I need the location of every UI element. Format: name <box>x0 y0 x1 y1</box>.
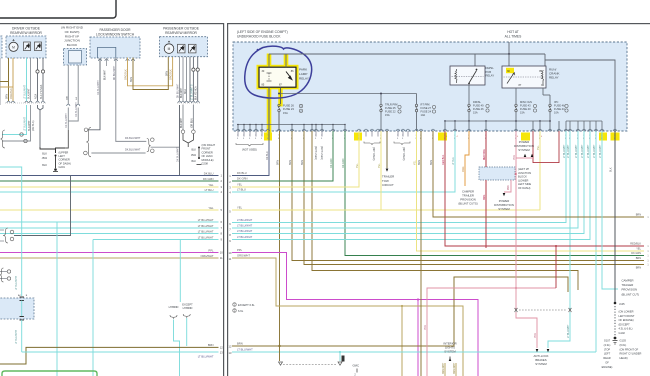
svg-text:J105: J105 <box>619 302 625 306</box>
passenger mirror merged wires to HVAC ground <box>182 105 184 131</box>
right brace and callouts <box>147 139 151 152</box>
svg-text:OF: OF <box>605 361 609 365</box>
svg-text:LT BLU/WHT: LT BLU/WHT <box>564 144 566 158</box>
left edge brace <box>1 130 6 148</box>
left panel border <box>0 23 224 24</box>
ground G102 <box>614 337 617 340</box>
trlr prk fuse drop <box>380 94 382 105</box>
wire BLK ring-terminal 2 <box>42 58 44 70</box>
svg-text:(NOT USED): (NOT USED) <box>314 146 317 160</box>
passenger door lock/window switch box <box>90 37 140 58</box>
svg-text:(LEFT SIDE OF ENGINE COMPT): (LEFT SIDE OF ENGINE COMPT) <box>237 30 288 34</box>
svg-text:LT BLU/WHT: LT BLU/WHT <box>237 348 253 352</box>
left panel wire 9 LT BLU/WHT <box>93 239 219 241</box>
wire YEL to wire 3 <box>232 131 359 187</box>
svg-text:PNK: PNK <box>513 155 516 160</box>
wire LT BLU/WHT branch at x57 to bottom <box>56 223 58 376</box>
svg-text:MISC IGN: MISC IGN <box>520 100 532 104</box>
svg-text:LT BLU: LT BLU <box>452 157 455 165</box>
wire 10 PPL <box>232 253 478 376</box>
svg-text:PNK: PNK <box>508 185 510 190</box>
svg-text:FUSE 23: FUSE 23 <box>283 107 294 111</box>
engine option note <box>233 303 236 306</box>
driver LT BLU/WHT exits left edge <box>2 105 27 135</box>
svg-text:YEL: YEL <box>237 183 243 187</box>
inline connector on PNK at 310 <box>515 308 518 312</box>
svg-text:OF ENGINE): OF ENGINE) <box>619 318 634 322</box>
svg-text:LT BLU/WHT: LT BLU/WHT <box>24 84 27 99</box>
svg-text:HOT AT: HOT AT <box>507 30 519 34</box>
svg-text:IPC: IPC <box>554 100 558 104</box>
not used stub group 2 <box>364 142 380 145</box>
yellow highlight feed stub 30 <box>267 54 272 66</box>
svg-text:DK BLU/WHT: DK BLU/WHT <box>75 102 78 117</box>
svg-text:BRN: BRN <box>430 160 433 165</box>
wire 5 YEL <box>232 209 540 211</box>
splice J105 <box>614 302 617 305</box>
svg-text:LT BLU/WHT: LT BLU/WHT <box>568 324 570 338</box>
left panel wire 13 LT BLU/WHT <box>22 351 219 353</box>
svg-text:OF HVAC: OF HVAC <box>202 154 213 158</box>
svg-text:JUNCTION: JUNCTION <box>64 39 80 43</box>
wire LT BLU/WHT branch at x93 to bottom <box>92 240 94 376</box>
park lamp relay K1 <box>259 67 296 87</box>
svg-text:15A: 15A <box>283 111 288 115</box>
svg-text:LT BLU/WHT: LT BLU/WHT <box>237 229 253 233</box>
svg-text:LT BLU/WHT: LT BLU/WHT <box>198 218 214 222</box>
svg-text:DM/SL: DM/SL <box>486 66 495 70</box>
svg-text:YEL: YEL <box>537 145 540 150</box>
wire YEL to right edge <box>417 131 645 251</box>
svg-text:GMC: GMC <box>353 364 360 368</box>
left I/P junction block <box>479 167 515 180</box>
svg-text:(TOP: (TOP <box>604 347 610 351</box>
svg-text:BLOCK: BLOCK <box>67 43 78 47</box>
svg-text:BRN: BRN <box>289 160 292 165</box>
svg-text:PPL: PPL <box>208 248 214 252</box>
svg-text:12: 12 <box>220 346 223 350</box>
trailer tow arrow stub <box>386 131 388 168</box>
svg-text:(NOT USED): (NOT USED) <box>320 146 323 160</box>
wire RED/ORG below junction block <box>485 180 487 248</box>
svg-text:BRN: BRN <box>301 160 304 165</box>
svg-text:EXCEPT: EXCEPT <box>182 303 193 307</box>
wire BLK to G201 <box>55 157 57 169</box>
svg-text:RELAY: RELAY <box>486 74 495 78</box>
wire RED/BLK <box>445 131 644 246</box>
svg-text:HYBRID: HYBRID <box>169 305 179 309</box>
wire ORG/WHT branch down <box>401 306 403 376</box>
svg-text:CORNER: CORNER <box>202 150 213 154</box>
svg-text:PASSENGER DOOR: PASSENGER DOOR <box>99 28 131 32</box>
wire 12 BRN right panel <box>232 277 568 346</box>
svg-text:10: 10 <box>220 251 223 255</box>
MISC IGN fuse drop <box>515 88 517 104</box>
wire RED/BLK U-link under fuse box <box>533 131 559 163</box>
svg-text:PARK: PARK <box>299 68 308 72</box>
svg-text:LT BLU/WHT: LT BLU/WHT <box>15 329 18 344</box>
left tall brace <box>86 127 91 156</box>
svg-text:BRN: BRN <box>165 71 168 76</box>
svg-text:11: 11 <box>220 256 223 260</box>
svg-text:BLOCK: BLOCK <box>518 175 527 179</box>
svg-text:DK BLU/WHT: DK BLU/WHT <box>97 80 100 95</box>
svg-text:LEFT SIDE: LEFT SIDE <box>518 182 531 186</box>
wire ORG/BLK U-link switch to passenger mirror <box>128 57 173 86</box>
svg-text:SYSTEM: SYSTEM <box>498 207 510 211</box>
svg-text:YEL: YEL <box>378 163 381 168</box>
svg-text:RIGHT CYLINDER: RIGHT CYLINDER <box>620 352 642 356</box>
junction block right edge dot <box>515 173 517 175</box>
svg-text:(BLUNT CUT): (BLUNT CUT) <box>622 292 640 296</box>
svg-text:RELAY: RELAY <box>549 76 559 80</box>
svg-text:YEL: YEL <box>208 206 214 210</box>
right panel border <box>227 23 650 24</box>
driver BLK wires merge <box>38 105 41 110</box>
svg-text:DK GRN: DK GRN <box>342 158 345 168</box>
svg-text:FUSE 40: FUSE 40 <box>520 107 531 111</box>
wire BLK main ground <box>614 131 616 304</box>
svg-text:10A: 10A <box>554 111 559 115</box>
relay switch arm <box>286 72 292 80</box>
yellow highlight wire 87 output <box>278 87 282 107</box>
wire DK GRN long to right edge <box>345 131 644 256</box>
ground triangle right <box>338 362 342 365</box>
svg-text:DK GRN: DK GRN <box>237 177 248 181</box>
splice J502 <box>55 155 57 157</box>
svg-text:(ON RIGHT: (ON RIGHT <box>202 143 216 147</box>
left panel wire 10 PPL <box>0 252 219 254</box>
svg-text:DM/SL: DM/SL <box>473 100 481 104</box>
svg-text:PPL: PPL <box>237 248 243 252</box>
left panel wire 12 BRN <box>0 347 219 364</box>
svg-text:BLK: BLK <box>42 164 47 167</box>
driver-door switch box sliver at cropped left edge <box>0 36 2 58</box>
right I/P junction block box <box>64 49 87 66</box>
svg-text:LT BLU/WHT: LT BLU/WHT <box>582 144 584 158</box>
svg-text:DK.BLU/WHT: DK.BLU/WHT <box>125 137 141 140</box>
svg-text:BLK/WHT: BLK/WHT <box>28 120 31 131</box>
svg-text:DK BLU/WHT: DK BLU/WHT <box>177 147 180 162</box>
svg-text:ORG: ORG <box>462 166 465 172</box>
splice J502 right <box>198 147 200 149</box>
svg-text:REARVIEW MIRROR: REARVIEW MIRROR <box>10 31 42 35</box>
svg-text:(OR BLK): (OR BLK) <box>191 118 193 128</box>
svg-text:JUNCTION: JUNCTION <box>518 171 531 175</box>
not used stub group 3 <box>394 142 410 145</box>
svg-text:15A: 15A <box>520 111 525 115</box>
wire BRN 3 <box>304 131 644 265</box>
inline connector hatch on ground branch <box>342 356 345 362</box>
svg-text:RT PRK: RT PRK <box>421 103 431 107</box>
svg-text:FUSE 43: FUSE 43 <box>554 107 565 111</box>
left panel wire 4 LT BLU <box>0 191 219 193</box>
svg-text:J502: J502 <box>42 157 48 160</box>
svg-text:G201: G201 <box>59 165 66 169</box>
svg-text:FRONT: FRONT <box>202 147 211 151</box>
svg-text:LT BLU: LT BLU <box>205 188 214 192</box>
junction block wire DK BLU/WHT b <box>77 65 79 104</box>
svg-text:BRN: BRN <box>636 267 641 270</box>
wire LT BLU/WHT from connector to wire 13 <box>21 320 23 352</box>
pnk branch to power distribution below <box>504 180 511 192</box>
svg-text:BLK/WHT: BLK/WHT <box>181 87 183 98</box>
svg-text:PROVISION: PROVISION <box>622 288 638 292</box>
svg-text:(NOT USED): (NOT USED) <box>242 148 257 152</box>
svg-text:BLK/WHT: BLK/WHT <box>105 69 107 80</box>
svg-text:BRN: BRN <box>208 343 214 347</box>
wire BRN 2 <box>292 131 644 261</box>
driver BLK/WHT (OR BLK) exits left edge <box>2 105 31 141</box>
svg-text:OF DASH): OF DASH) <box>65 30 80 34</box>
passenger mirror heater element 1 <box>178 44 186 53</box>
wire BRN from fuse 23 down to wire 12 <box>279 131 281 346</box>
ground convergence to G201 <box>40 147 56 153</box>
wire PNK main <box>515 131 517 310</box>
wire fuse 23 output <box>278 112 280 131</box>
svg-text:YEL: YEL <box>636 247 641 250</box>
svg-text:15A: 15A <box>385 113 390 117</box>
svg-text:NCA: NCA <box>184 89 187 94</box>
internal bus left side <box>237 124 345 126</box>
not used stubs <box>237 131 239 137</box>
svg-text:ORG/BLK: ORG/BLK <box>170 69 173 80</box>
svg-text:(NOT USED): (NOT USED) <box>402 147 404 161</box>
left panel wire 8 LT BLU/WHT <box>0 233 219 235</box>
svg-text:LEFT: LEFT <box>604 352 611 356</box>
svg-text:SYSTEM: SYSTEM <box>518 148 530 152</box>
internal bus from relay 87 to park fuses <box>279 93 417 95</box>
bus drops to connectors <box>444 121 446 131</box>
fuse block bottom connector bumps <box>236 129 239 131</box>
svg-text:ORG/BLK: ORG/BLK <box>10 88 13 99</box>
svg-text:FUSE 24: FUSE 24 <box>421 110 432 114</box>
svg-text:TRLR PRK: TRLR PRK <box>385 103 398 107</box>
left panel wire 1 DK BLU <box>0 175 219 177</box>
wire ORG/BLK from driver mirror <box>12 58 14 101</box>
wire BLK/WHT from driver mirror <box>30 58 32 101</box>
svg-text:M: M <box>168 47 171 51</box>
ground triangle left <box>279 362 283 365</box>
wire RED/ORG through junction block <box>485 131 487 167</box>
ground G201 <box>54 168 57 171</box>
svg-text:BRN: BRN <box>418 160 421 165</box>
wire LT BLU/WHT from left edge to inline connector <box>0 167 22 296</box>
svg-text:BRN: BRN <box>636 213 641 216</box>
svg-text:LAMP: LAMP <box>299 72 307 76</box>
wire 13 ground branch <box>339 352 341 361</box>
svg-text:DK GRN: DK GRN <box>203 177 214 181</box>
wire BRN from driver mirror <box>8 58 10 101</box>
left panel wire 6 LT BLU/WHT <box>0 221 219 223</box>
svg-text:BRN: BRN <box>130 77 133 82</box>
svg-text:(LEFT I/P: (LEFT I/P <box>518 167 529 171</box>
svg-text:HYBRID: HYBRID <box>183 306 193 310</box>
svg-text:BLK YD NCA: BLK YD NCA <box>195 86 198 100</box>
svg-text:DK GRN: DK GRN <box>330 158 333 168</box>
svg-text:LT BLU/WHT: LT BLU/WHT <box>237 235 253 239</box>
svg-text:DK.BLU/WHT: DK.BLU/WHT <box>125 149 141 152</box>
wire DK BLU/WHT long vertical to bus 1 <box>179 105 181 176</box>
svg-text:BRN: BRN <box>237 342 243 346</box>
svg-text:BLK: BLK <box>42 153 47 156</box>
top-left white label box <box>0 0 116 18</box>
svg-text:YEL: YEL <box>237 206 243 210</box>
svg-text:FUSE 46: FUSE 46 <box>554 104 565 108</box>
driver mirror heater element 1 <box>24 42 31 51</box>
svg-text:ENGINE): ENGINE) <box>602 365 613 369</box>
svg-text:6.6L: 6.6L <box>238 309 244 313</box>
svg-text:DK GRN: DK GRN <box>631 252 641 255</box>
svg-text:LT BLU/WHT: LT BLU/WHT <box>198 355 214 359</box>
passenger mirror gray wires <box>179 57 181 101</box>
svg-text:BLK/WHT: BLK/WHT <box>181 117 183 128</box>
svg-text:LT BLU/WHT: LT BLU/WHT <box>198 229 214 233</box>
svg-text:(6.6L): (6.6L) <box>620 343 627 347</box>
driver BRN exits left edge <box>0 58 9 82</box>
svg-text:OF DASH): OF DASH) <box>59 161 72 165</box>
svg-text:ORG: ORG <box>484 195 486 200</box>
svg-text:DK BLU/WHT: DK BLU/WHT <box>65 113 68 128</box>
svg-text:FUSE 46: FUSE 46 <box>473 107 484 111</box>
passenger switch wire DK BLU/WHT drop to callout <box>88 58 100 130</box>
svg-text:G103: G103 <box>620 339 627 343</box>
link wire to mirror drop <box>151 146 180 148</box>
IPC fuse drop <box>542 88 544 95</box>
svg-text:M: M <box>12 45 15 49</box>
svg-text:BRN: BRN <box>277 160 280 165</box>
wire BRN to right edge <box>433 131 644 217</box>
svg-text:CAMPER: CAMPER <box>622 279 634 283</box>
park lamp relay yellow highlight <box>257 65 299 90</box>
svg-text:BRN: BRN <box>636 257 641 260</box>
svg-text:G107: G107 <box>604 339 611 343</box>
svg-text:LT BLU: LT BLU <box>237 188 246 192</box>
wire BLK ring-terminal 1 <box>37 58 39 70</box>
junction block wires drop toward G201 splice <box>67 108 69 131</box>
svg-text:G208: G208 <box>202 162 209 166</box>
passenger mirror BLK ring wires <box>192 57 194 68</box>
svg-text:BRN: BRN <box>6 94 9 99</box>
svg-text:(BLUNT CUTS): (BLUNT CUTS) <box>458 202 477 206</box>
driver outside rearview mirror box <box>6 36 46 58</box>
svg-text:HEAD): HEAD) <box>620 356 628 360</box>
svg-text:FUSE 22: FUSE 22 <box>385 110 396 114</box>
svg-text:ORG/WHT: ORG/WHT <box>201 254 214 258</box>
svg-text:(OR BLK): (OR BLK) <box>32 120 35 131</box>
svg-text:LT BLU/WHT: LT BLU/WHT <box>588 144 590 158</box>
wire DK BLU relay 85 down (under highlight) <box>268 87 270 131</box>
wire EXCEPT HYBRID branch <box>186 318 188 346</box>
svg-text:SYSTEM: SYSTEM <box>535 362 547 366</box>
svg-text:13: 13 <box>220 351 223 355</box>
wire LT BLU/WHT to ABS <box>548 312 570 348</box>
driver mirror motor M1 <box>9 42 18 51</box>
svg-text:RELAY: RELAY <box>299 76 309 80</box>
svg-text:G102: G102 <box>619 331 626 335</box>
svg-text:BLK: BLK <box>191 160 196 163</box>
svg-text:FUSE 27: FUSE 27 <box>421 106 432 110</box>
svg-text:RIGHT I/P: RIGHT I/P <box>65 34 79 38</box>
green highlight box bottom-left corner <box>2 371 97 376</box>
svg-text:DK BLU/WHT: DK BLU/WHT <box>178 83 180 98</box>
svg-text:YEL: YEL <box>356 163 359 168</box>
svg-text:CORNER: CORNER <box>59 158 70 162</box>
left panel wire 2 DK GRN <box>0 180 219 182</box>
svg-text:BLK: BLK <box>610 167 613 172</box>
left edge callout circles lower <box>7 270 10 273</box>
yellow highlight wire 85 output <box>267 87 272 133</box>
gray jog wire from DK BLU bus down-left <box>14 176 71 236</box>
interior lights stub wires <box>444 363 446 376</box>
svg-text:(UPPER: (UPPER <box>59 151 69 155</box>
feed bus to relays <box>269 53 545 55</box>
passenger switch short stubs <box>98 59 101 61</box>
svg-text:LEFT FRONT: LEFT FRONT <box>619 314 635 318</box>
wire 13 LT BLU/WHT right panel <box>232 351 596 353</box>
inline connector box lower-left <box>0 298 34 319</box>
DK BLU/WHT wire B <box>91 152 145 154</box>
rt prk fuse drop <box>416 94 418 105</box>
internal bus right side <box>445 120 550 122</box>
driver mirror heater element 2 <box>35 42 42 51</box>
hot feed wire <box>508 42 510 54</box>
svg-text:EXCEPT 6.6L: EXCEPT 6.6L <box>238 303 255 307</box>
svg-text:UNDERHOOD FUSE BLOCK: UNDERHOOD FUSE BLOCK <box>237 35 281 39</box>
svg-text:CIRCUIT: CIRCUIT <box>382 183 394 187</box>
wire LT BLU/WHT from driver mirror <box>26 58 28 101</box>
wire HYBRID branch <box>174 320 180 376</box>
svg-text:REAR: REAR <box>603 356 610 360</box>
svg-text:LT BLU/WHT: LT BLU/WHT <box>198 224 214 228</box>
svg-text:SYSTEM: SYSTEM <box>444 350 456 354</box>
svg-text:YEL: YEL <box>414 160 417 165</box>
svg-text:FUSE 43: FUSE 43 <box>520 104 531 108</box>
svg-text:BLK YD NCA: BLK YD NCA <box>40 84 43 99</box>
svg-text:TRAILER: TRAILER <box>622 283 634 287</box>
passenger mirror connector row <box>178 101 181 103</box>
svg-text:LT BLU/WHT: LT BLU/WHT <box>237 218 253 222</box>
underhood fuse block box <box>233 42 627 131</box>
wire BRN to ground <box>279 346 281 361</box>
svg-text:PCB: PCB <box>486 70 492 74</box>
svg-text:FUSE 25: FUSE 25 <box>385 106 396 110</box>
wire ABS cyan long <box>569 131 571 310</box>
wires 6-9 LT BLU/WHT <box>232 131 566 223</box>
svg-text:ALL TIMES: ALL TIMES <box>505 34 522 38</box>
hybrid branch wire from wire 9 <box>179 240 181 303</box>
svg-text:PNK: PNK <box>424 325 427 330</box>
left panel wire 3 YEL <box>0 186 219 188</box>
svg-text:LT BLU/WHT: LT BLU/WHT <box>576 144 578 158</box>
svg-text:4.3L & 6.6L): 4.3L & 6.6L) <box>619 327 633 331</box>
wire PNK to ABS <box>516 312 537 348</box>
svg-text:ORG/WHT: ORG/WHT <box>454 362 456 374</box>
svg-text:RED/BLK: RED/BLK <box>630 242 641 245</box>
left panel wire 5 YEL <box>0 209 219 211</box>
svg-text:ORG/WHT: ORG/WHT <box>443 362 445 374</box>
wire BRN U-link switch to passenger mirror <box>133 53 168 89</box>
junction block wire DK BLU/WHT a <box>67 65 69 104</box>
svg-text:BLK/WHT: BLK/WHT <box>28 88 31 99</box>
not used stub group 1 <box>236 143 263 146</box>
fuse 23 (park lamp) <box>278 104 280 106</box>
svg-text:RED/BLK: RED/BLK <box>442 154 445 165</box>
svg-text:FUSE 49: FUSE 49 <box>473 104 484 108</box>
svg-text:(LOWER: (LOWER <box>518 178 529 182</box>
wire BRN center vertical <box>420 131 422 376</box>
svg-text:DK BLU: DK BLU <box>266 151 269 160</box>
